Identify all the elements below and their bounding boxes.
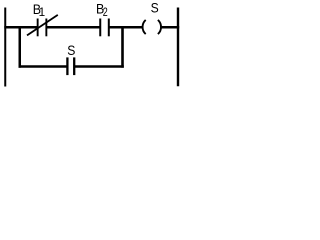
svg-text:2: 2 bbox=[103, 5, 108, 19]
svg-text:1: 1 bbox=[39, 6, 46, 19]
svg-text:S: S bbox=[67, 43, 75, 59]
svg-text:S: S bbox=[151, 1, 159, 17]
